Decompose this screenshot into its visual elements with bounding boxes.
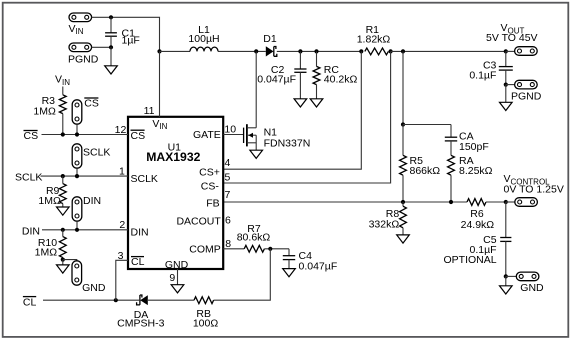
- junction FB/RA: [449, 200, 453, 204]
- svg-text:0.1µF: 0.1µF: [469, 70, 496, 82]
- svg-text:5: 5: [225, 171, 231, 183]
- svg-text:COMP: COMP: [189, 244, 221, 256]
- wire SCLK connector drop: [76, 168, 78, 176]
- capacitor C2: [294, 51, 306, 98]
- inductor L1: [190, 47, 218, 51]
- svg-text:VIN: VIN: [55, 74, 70, 87]
- wire VOUT to divider: [402, 51, 404, 124]
- svg-text:10: 10: [224, 124, 236, 136]
- label CS(bar) connector: [84, 98, 99, 110]
- label R8 value: [369, 208, 400, 230]
- label R1 value: [357, 24, 391, 46]
- ground at C4: [283, 269, 296, 277]
- svg-text:1MΩ: 1MΩ: [38, 195, 61, 207]
- ground at C2: [294, 99, 307, 107]
- capacitor C5: [500, 202, 511, 276]
- svg-text:8.25kΩ: 8.25kΩ: [459, 165, 493, 177]
- junction switch node: [254, 49, 258, 53]
- svg-text:DACOUT: DACOUT: [176, 216, 221, 228]
- wire FB rail: [223, 201, 467, 203]
- ground at R10: [57, 260, 70, 274]
- wire PGND stub: [506, 84, 515, 86]
- node VOUT label: [486, 22, 538, 44]
- label RB value: [193, 308, 219, 330]
- pin label CL(bar): [131, 256, 145, 268]
- svg-text:1MΩ: 1MΩ: [35, 246, 58, 258]
- label CA value: [459, 130, 489, 153]
- junction SCLK/connector: [75, 174, 79, 178]
- node CL(bar) label: [23, 296, 37, 308]
- wire rail to L1: [160, 50, 191, 52]
- svg-text:40.2kΩ: 40.2kΩ: [324, 73, 358, 85]
- resistor R1: [365, 48, 389, 55]
- svg-text:SCLK: SCLK: [83, 147, 110, 159]
- junction CS/R3: [61, 132, 65, 136]
- ground at C1: [105, 47, 118, 74]
- svg-text:GND: GND: [165, 259, 189, 271]
- svg-text:CS-: CS-: [201, 180, 220, 192]
- svg-text:4: 4: [225, 157, 231, 169]
- junction VCONTROL/C5: [504, 200, 508, 204]
- svg-text:CS+: CS+: [199, 166, 220, 178]
- svg-text:CS: CS: [24, 130, 39, 142]
- wire PGND connector to C1: [92, 46, 111, 48]
- junction DIN/connector: [75, 228, 79, 232]
- svg-text:CMPSH-3: CMPSH-3: [117, 318, 164, 330]
- label C2 value: [257, 64, 296, 86]
- junction C5/GND: [504, 274, 508, 278]
- transistor N1 FDN337N: [244, 124, 257, 150]
- svg-text:5V TO 45V: 5V TO 45V: [486, 32, 538, 44]
- junction divider top: [401, 122, 405, 126]
- wire COMP to RB: [214, 249, 271, 300]
- resistor R5: [400, 125, 407, 203]
- wire L1 to switch node: [218, 50, 266, 52]
- wire R1 to VOUT: [391, 50, 506, 52]
- wire pin 3 CL drop: [116, 260, 128, 300]
- resistor RA: [448, 155, 455, 202]
- wire pin 9 GND stub: [177, 269, 179, 285]
- wire VIN connector to corner: [92, 17, 160, 51]
- label R9 value: [38, 185, 61, 207]
- connector J-GND logic: [72, 261, 82, 285]
- svg-text:PGND: PGND: [68, 54, 99, 66]
- connector J-DIN: [72, 197, 82, 221]
- label C5 value: [443, 234, 496, 266]
- svg-text:100µH: 100µH: [188, 33, 219, 45]
- connector J-PGND input: [69, 43, 92, 52]
- label C3 value: [469, 60, 496, 82]
- wire pin 11 VIN: [159, 51, 161, 116]
- ground at R9: [57, 207, 70, 215]
- junction C1/PGND: [109, 45, 113, 49]
- connector J-SCLK: [72, 144, 82, 168]
- svg-text:GATE: GATE: [193, 129, 221, 141]
- svg-text:332kΩ: 332kΩ: [369, 218, 400, 230]
- junction R7/C4: [268, 247, 272, 251]
- svg-text:SCLK: SCLK: [15, 172, 42, 184]
- svg-text:100Ω: 100Ω: [193, 318, 219, 330]
- wire DA to CL line: [43, 299, 140, 301]
- svg-text:DIN: DIN: [83, 195, 101, 207]
- svg-text:0.047µF: 0.047µF: [257, 73, 296, 85]
- junction VIN/C1: [109, 15, 113, 19]
- junction feedback tap: [401, 49, 405, 53]
- svg-text:CS: CS: [131, 130, 146, 142]
- label DA CMPSH-3: [117, 309, 164, 330]
- junction C3/PGND: [504, 83, 508, 87]
- svg-text:MAX1932: MAX1932: [146, 150, 200, 164]
- svg-text:866kΩ: 866kΩ: [410, 165, 441, 177]
- svg-text:CL: CL: [23, 296, 37, 308]
- label C1 value: [122, 28, 140, 47]
- resistor R9: [59, 176, 66, 207]
- svg-text:VIN: VIN: [69, 23, 84, 36]
- resistor R8: [400, 202, 407, 235]
- svg-text:DIN: DIN: [22, 226, 40, 238]
- svg-text:7: 7: [225, 189, 231, 201]
- svg-text:FDN337N: FDN337N: [264, 137, 311, 149]
- label R6 value: [461, 208, 495, 231]
- svg-text:GND: GND: [82, 282, 106, 294]
- junction rail/pin11: [157, 49, 161, 53]
- junction VOUT/C3: [504, 49, 508, 53]
- junction R1 left / CS+ tap: [359, 49, 363, 53]
- wire VOUT stub: [506, 50, 515, 52]
- ground at C5: [500, 276, 513, 294]
- wire N1 drain to switch node: [255, 51, 257, 127]
- node VCONTROL label: [504, 173, 564, 195]
- wire VCONTROL stub: [506, 201, 515, 203]
- ground at N1 source: [250, 150, 263, 158]
- junction C2 tap: [298, 49, 302, 53]
- junction RC tap: [314, 49, 318, 53]
- wire DIN connector drop: [76, 221, 78, 230]
- wire GND stub: [506, 275, 517, 277]
- svg-text:SCLK: SCLK: [131, 173, 158, 185]
- junction SCLK/R9: [61, 174, 65, 178]
- wire CS line: [42, 134, 129, 136]
- svg-text:11: 11: [144, 105, 155, 117]
- diode D1 (Schottky): [266, 46, 277, 56]
- svg-text:DIN: DIN: [131, 226, 149, 238]
- label R10 value: [35, 237, 58, 258]
- junction FB/R5/R8: [401, 200, 405, 204]
- capacitor C3: [499, 51, 513, 84]
- connector J-VOUT: [515, 47, 538, 56]
- capacitor CA: [445, 125, 457, 156]
- connector J-VCONTROL: [515, 198, 538, 207]
- svg-text:1.82kΩ: 1.82kΩ: [357, 34, 391, 46]
- wire CS- net: [223, 51, 390, 183]
- svg-text:FB: FB: [206, 198, 219, 210]
- wire D1 cathode to R1: [277, 50, 362, 52]
- wire CS connector drop: [76, 124, 78, 134]
- resistor RC: [313, 51, 320, 98]
- connector J-CS: [72, 100, 82, 124]
- node CS(bar) label: [24, 130, 39, 142]
- svg-text:0V TO 1.25V: 0V TO 1.25V: [504, 184, 564, 196]
- junction CS/connector: [75, 132, 79, 136]
- junction R1 right / CS- tap: [389, 49, 393, 53]
- svg-text:CL: CL: [131, 256, 145, 268]
- resistor RB: [148, 297, 214, 304]
- wire CS+ net: [223, 51, 361, 169]
- svg-text:1µF: 1µF: [122, 35, 140, 47]
- ground at C3: [500, 85, 513, 111]
- svg-text:PGND: PGND: [511, 90, 542, 102]
- diode DA CMPSH-3: [137, 295, 148, 305]
- ground at RC: [310, 99, 323, 107]
- svg-text:24.9kΩ: 24.9kΩ: [461, 219, 495, 231]
- wire SCLK line: [41, 175, 129, 177]
- label R5 value: [410, 155, 441, 177]
- wire divider top to CA: [403, 124, 451, 126]
- svg-text:CS: CS: [84, 98, 99, 110]
- wire GATE pin 10: [223, 134, 243, 136]
- pin label CS(bar): [131, 130, 146, 142]
- label RA value: [459, 155, 493, 177]
- connector J-PGND output: [515, 80, 538, 89]
- svg-text:6: 6: [225, 215, 231, 227]
- connector J-GND output: [516, 272, 539, 281]
- ground at R8: [397, 235, 410, 243]
- label RC value: [324, 64, 358, 86]
- svg-text:OPTIONAL: OPTIONAL: [443, 254, 496, 266]
- junction DIN/R10: [61, 228, 65, 232]
- resistor R10: [59, 230, 66, 260]
- wire pin 8 COMP: [223, 248, 244, 250]
- label N1 FDN337N: [264, 127, 311, 150]
- svg-text:80.6kΩ: 80.6kΩ: [237, 232, 271, 244]
- resistor R3: [59, 87, 66, 135]
- label R3 value: [33, 95, 56, 118]
- label C4 value: [299, 250, 338, 272]
- ground at pin 9: [171, 285, 184, 293]
- capacitor C4: [283, 249, 295, 269]
- svg-text:1MΩ: 1MΩ: [33, 105, 56, 117]
- capacitor C1: [105, 17, 117, 47]
- op-amp U1 MAX1932 box: [128, 117, 223, 269]
- resistor R7: [244, 245, 289, 252]
- resistor R6: [467, 199, 506, 206]
- label L1 value: [188, 24, 219, 45]
- svg-text:0.047µF: 0.047µF: [299, 261, 338, 273]
- wire DIN line: [42, 229, 128, 231]
- wire R10 to GND connector: [63, 260, 77, 261]
- label R7 value: [237, 223, 271, 243]
- svg-text:150pF: 150pF: [459, 141, 489, 153]
- junction CL/pin3: [114, 298, 118, 302]
- junction R10/GND connector: [61, 258, 65, 262]
- svg-text:GND: GND: [520, 282, 544, 294]
- svg-text:D1: D1: [263, 33, 277, 45]
- connector J-VIN input: [69, 13, 92, 22]
- svg-text:9: 9: [169, 272, 175, 284]
